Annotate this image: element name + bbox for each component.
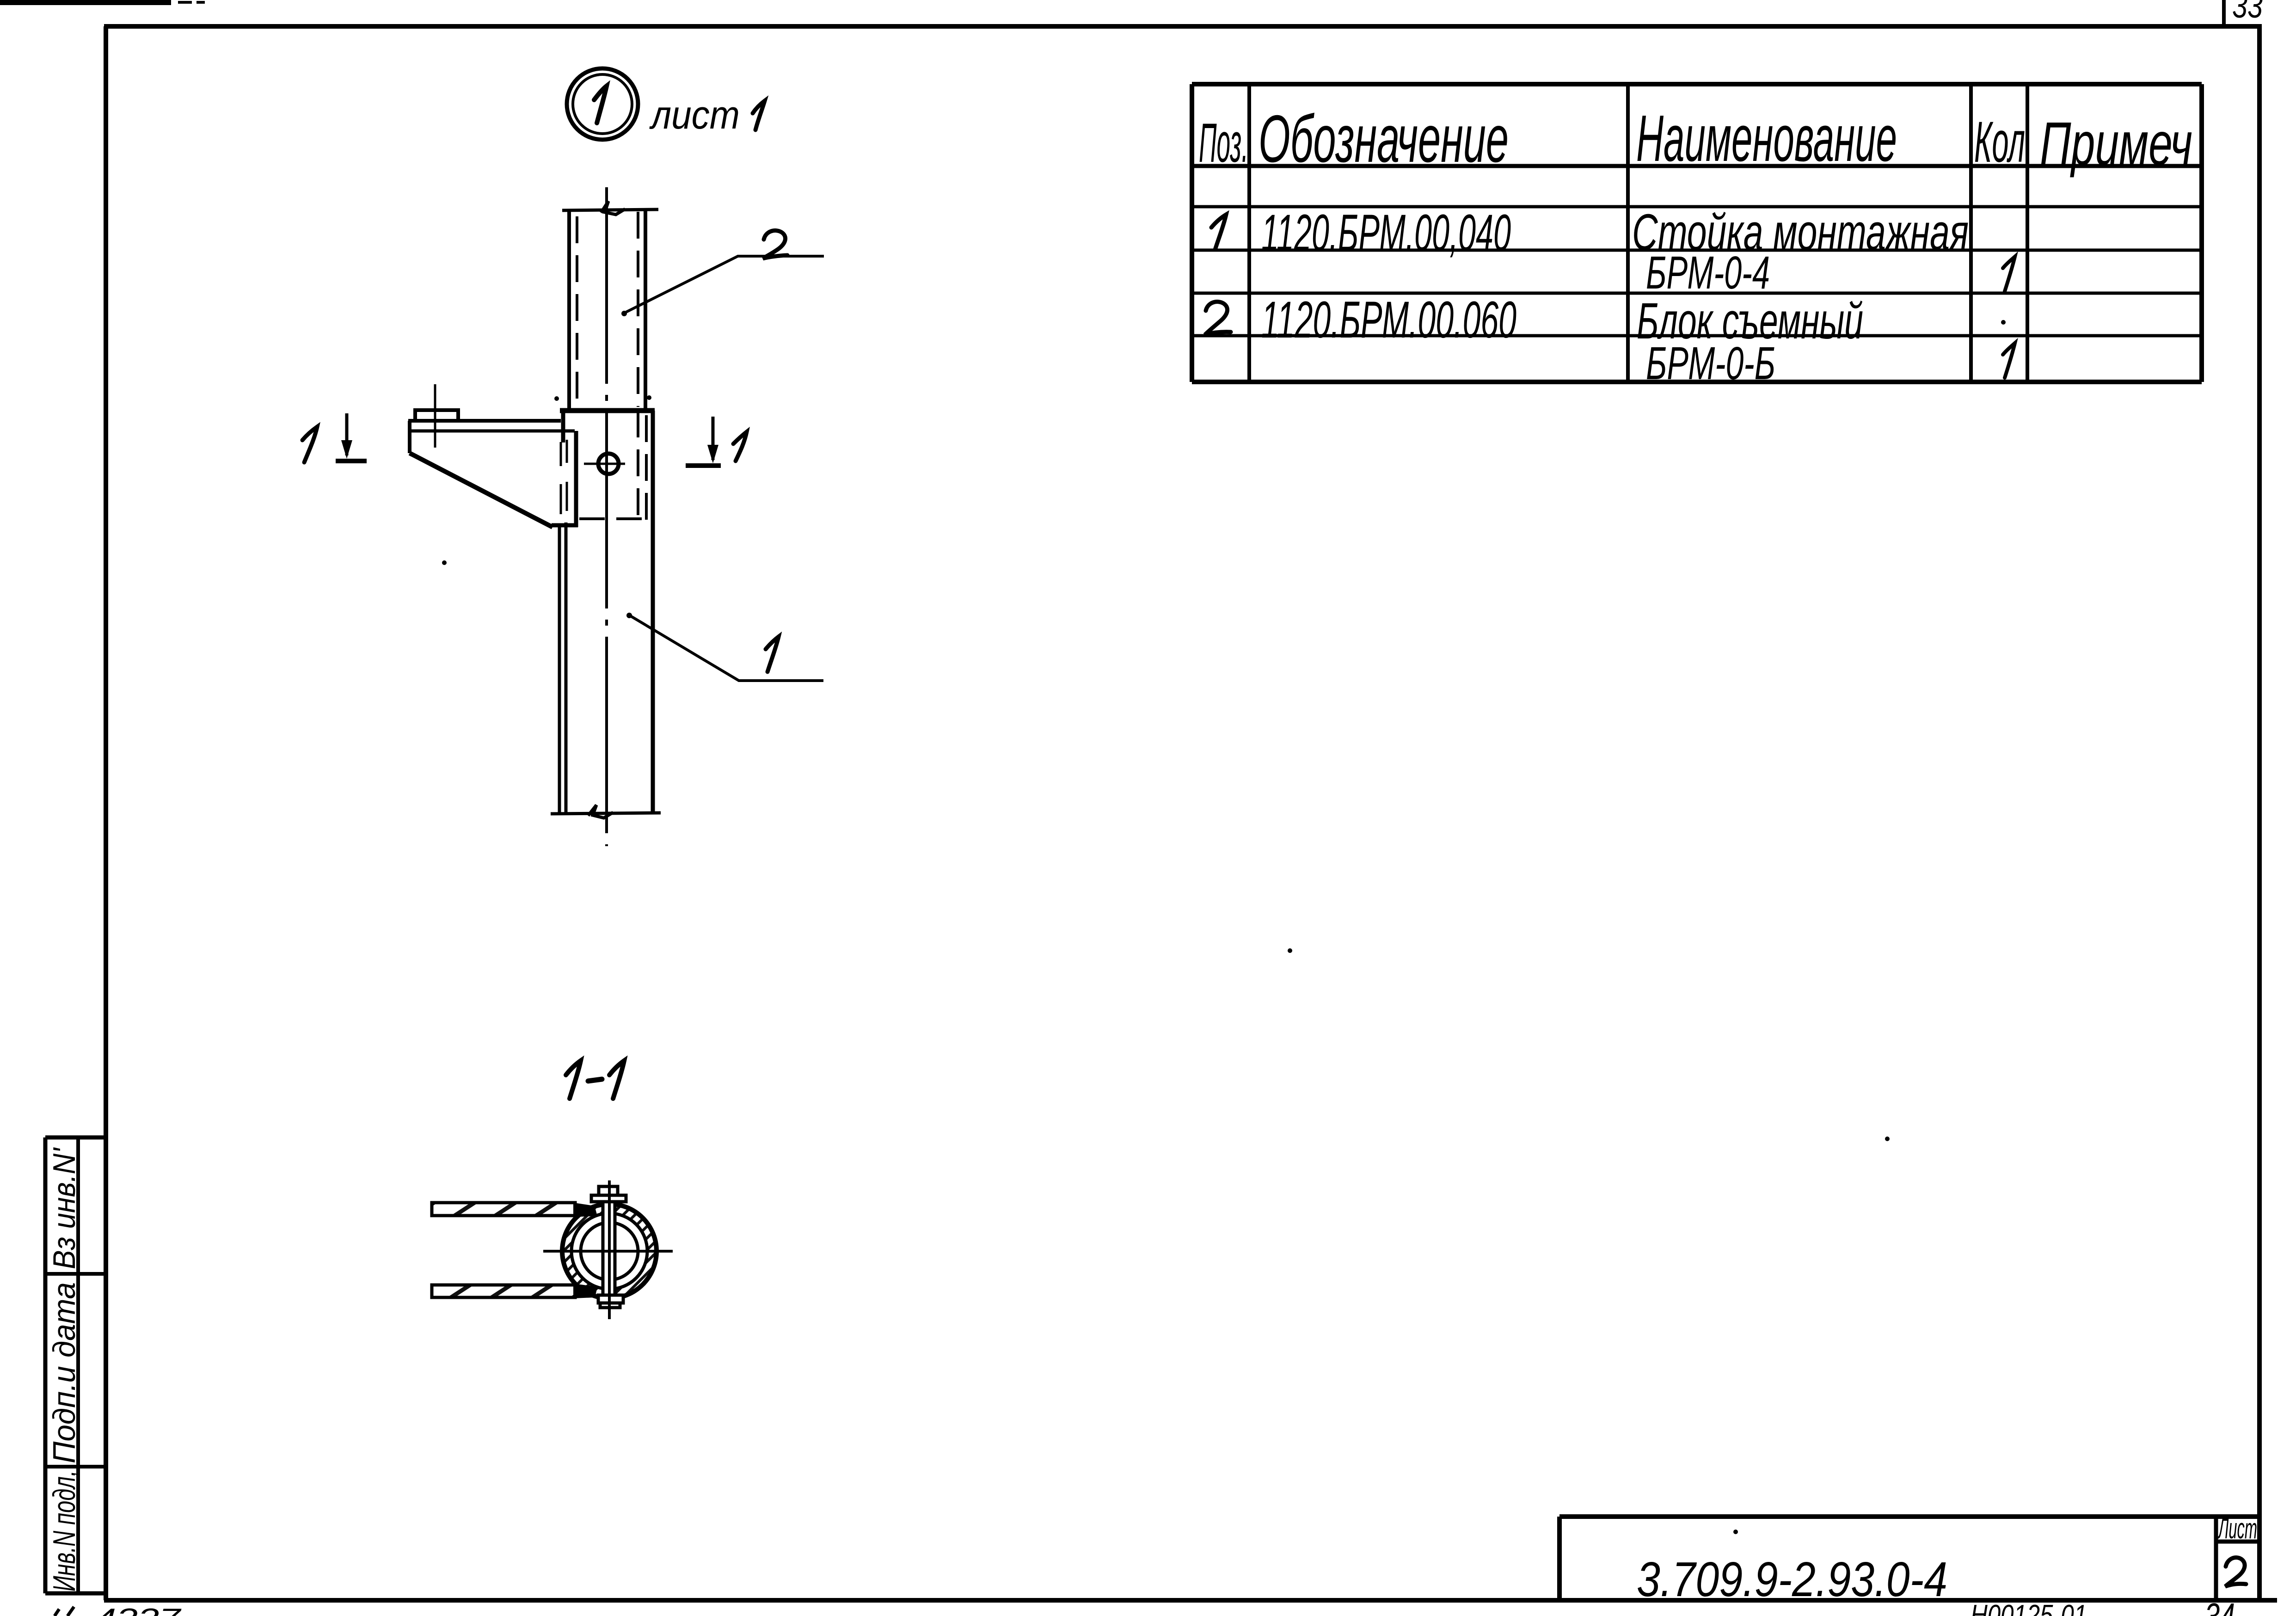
svg-text:1120.БРМ.00,040: 1120.БРМ.00,040 <box>1261 204 1511 262</box>
page number 33 cell <box>2224 0 2263 26</box>
svg-text:Примеч: Примеч <box>2040 110 2192 178</box>
svg-text:Лист: Лист <box>2217 1513 2257 1545</box>
tube 2 left edge <box>567 210 571 411</box>
svg-text:33: 33 <box>2232 0 2263 25</box>
table row 2 <box>1646 247 2015 299</box>
hidden lines of tube 2 inside collar <box>637 411 639 522</box>
leader line for item 2 <box>623 256 824 313</box>
collar right edge joined with lower post right edge <box>651 411 655 814</box>
table row 1 <box>1211 204 1969 262</box>
hole in collar <box>598 454 619 474</box>
leader line for item 1 <box>629 615 823 681</box>
bracket vertical plate right edge <box>574 431 578 527</box>
section mark right: arrow <box>686 417 721 466</box>
label 2 <box>763 231 787 258</box>
section: center lines <box>543 1250 673 1253</box>
svg-text:Поз.: Поз. <box>1199 112 1248 174</box>
svg-text:Наименование: Наименование <box>1636 102 1897 175</box>
bracket gusset bottom edge <box>552 523 578 528</box>
section label 1-1 <box>566 1061 624 1099</box>
svg-text:Вз инв.N': Вз инв.N' <box>47 1147 82 1269</box>
tube 2 hidden right line <box>637 212 639 407</box>
below-frame annotations <box>55 1596 2235 1616</box>
tube 2 hidden left line <box>576 216 578 407</box>
svg-text:1120.БРМ.00.060: 1120.БРМ.00.060 <box>1261 291 1516 349</box>
bottom break line of post 1 <box>551 805 661 818</box>
bracket gusset hypotenuse <box>410 453 553 527</box>
section mark left: arrow <box>336 413 367 461</box>
svg-text:лист: лист <box>649 93 740 137</box>
section: pipe ring <box>562 1204 657 1298</box>
top break line of tube 2 <box>562 201 658 215</box>
bracket top plate <box>408 419 561 423</box>
scan artifact top-left bar <box>0 0 205 5</box>
label 1 <box>766 637 779 672</box>
tube 2 right edge <box>644 210 647 411</box>
weld dashes on plate <box>561 440 567 514</box>
section: bolt <box>591 1186 626 1308</box>
bracket: tab on top <box>415 384 458 448</box>
section mark left: label 1 <box>302 427 317 462</box>
detail marker circle 1 <box>567 68 638 140</box>
svg-text:Обозначение: Обозначение <box>1259 101 1509 176</box>
hole horizontal center line <box>584 463 625 465</box>
table row 4 <box>1646 338 2015 389</box>
table row 3 <box>1205 291 1863 350</box>
svg-text:БРМ-0-Б: БРМ-0-Б <box>1646 338 1775 389</box>
svg-text:34: 34 <box>2204 1596 2235 1616</box>
svg-text:Инв.N подл,: Инв.N подл, <box>47 1470 82 1591</box>
collar of post 1: top edge <box>560 408 655 413</box>
svg-text:3.709.9-2.93.0-4: 3.709.9-2.93.0-4 <box>1637 1552 1947 1607</box>
svg-text:4337: 4337 <box>95 1603 182 1616</box>
svg-text:БРМ-0-4: БРМ-0-4 <box>1646 247 1770 299</box>
svg-text:Н00125-01: Н00125-01 <box>1971 1599 2087 1616</box>
svg-text:Кол: Кол <box>1974 110 2025 174</box>
section: lower plate <box>432 1285 575 1297</box>
lower post left edges <box>558 525 561 814</box>
stray dots <box>442 320 2006 1534</box>
svg-text:Подп.и дата: Подп.и дата <box>47 1282 82 1463</box>
table header texts <box>1199 101 2192 178</box>
collar left edge <box>561 411 565 442</box>
center line of post <box>605 187 608 846</box>
bracket left end <box>408 421 411 453</box>
section mark right: label 1 <box>733 432 747 461</box>
weld joints plate-to-ring <box>573 1203 597 1217</box>
section: upper plate <box>432 1203 575 1216</box>
hidden bottom edge of collar <box>579 517 645 520</box>
